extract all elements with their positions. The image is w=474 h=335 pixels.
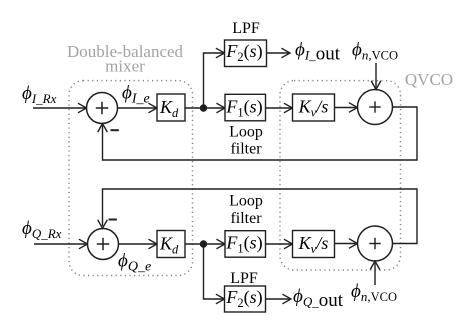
summing junction: Q mixer	[88, 229, 119, 260]
wire: Q mixer to Kd	[119, 239, 158, 249]
wire: Kd to F1 (top)	[185, 103, 225, 113]
svg-text:LPF: LPF	[230, 270, 258, 287]
wire: F1 to Kv (bottom)	[266, 239, 293, 249]
node label phi_I_Rx	[22, 83, 57, 106]
block F2 (top)	[225, 40, 267, 67]
node label phi_Q_Rx	[22, 218, 62, 241]
node label phi_Q_e	[118, 251, 151, 275]
svg-text:QVCO: QVCO	[405, 70, 453, 89]
svg-text:F1(s): F1(s)	[225, 233, 262, 256]
block F1 (top)	[225, 94, 266, 121]
block Kd (bottom)	[157, 231, 185, 258]
svg-text:F2(s): F2(s)	[225, 41, 262, 64]
node label phi_I_out	[295, 40, 341, 65]
wire: phi_n,VCO arrow into VCO Q summer	[370, 261, 380, 285]
dashed box: QVCO region	[280, 81, 401, 270]
block Kv/s (top)	[293, 94, 335, 121]
node label phi_Q_out	[293, 286, 344, 311]
wire: Kv to VCO summer (top)	[335, 103, 358, 113]
wire: node down to F2 (bottom branch)	[204, 244, 225, 304]
svg-text:filter: filter	[230, 141, 262, 158]
svg-text:F2(s): F2(s)	[225, 287, 262, 310]
summing junction: I mixer	[87, 93, 118, 124]
node label phi_n,VCO (top)	[352, 40, 398, 63]
block Kv/s (bottom)	[293, 231, 335, 258]
summing junction: VCO Q	[358, 226, 393, 261]
node label phi_I_e	[122, 83, 150, 107]
label: Double-balanced mixer	[67, 42, 184, 76]
junction node (bottom)	[200, 240, 207, 247]
wire: Kv to VCO summer (bottom)	[335, 239, 358, 249]
svg-text:LPF: LPF	[232, 20, 260, 37]
wire: I mixer to Kd	[118, 103, 158, 113]
wire: Kd to F1 (bottom)	[185, 239, 225, 249]
label Loop filter (top)	[229, 124, 263, 158]
svg-text:F1(s): F1(s)	[225, 97, 262, 120]
minus sign at I mixer	[111, 129, 119, 131]
label: QVCO	[405, 70, 453, 89]
wire: node up to F2 (top branch)	[204, 48, 225, 108]
junction node (top)	[200, 104, 207, 111]
node label phi_n,VCO (bottom)	[351, 281, 397, 304]
svg-text:mixer: mixer	[105, 57, 145, 76]
summing junction: VCO I	[358, 90, 393, 125]
block F1 (bottom)	[225, 231, 266, 258]
wire: VCO I output and feedback to I mixer	[98, 107, 417, 160]
dashed box: double-balanced mixer region	[69, 81, 193, 276]
svg-text:Loop: Loop	[229, 193, 263, 210]
wire: F2 to phi_I_out	[267, 48, 291, 58]
block Kd (top)	[157, 94, 185, 121]
label LPF (top)	[232, 20, 260, 37]
label LPF (bottom)	[230, 270, 258, 287]
wire: VCO Q output and feedback to Q mixer	[98, 189, 417, 244]
wire: input I into mixer	[33, 103, 87, 113]
svg-text:filter: filter	[230, 210, 262, 227]
svg-text:Loop: Loop	[229, 124, 263, 141]
block F2 (bottom)	[225, 286, 266, 312]
wire: F1 to Kv (top)	[266, 103, 293, 113]
wire: input Q into mixer	[34, 239, 88, 249]
label Loop filter (bottom)	[229, 193, 263, 228]
minus sign at Q mixer	[109, 219, 117, 221]
wire: F2 to phi_Q_out	[266, 294, 292, 304]
wire: phi_n,VCO arrow into VCO I summer	[371, 63, 381, 90]
